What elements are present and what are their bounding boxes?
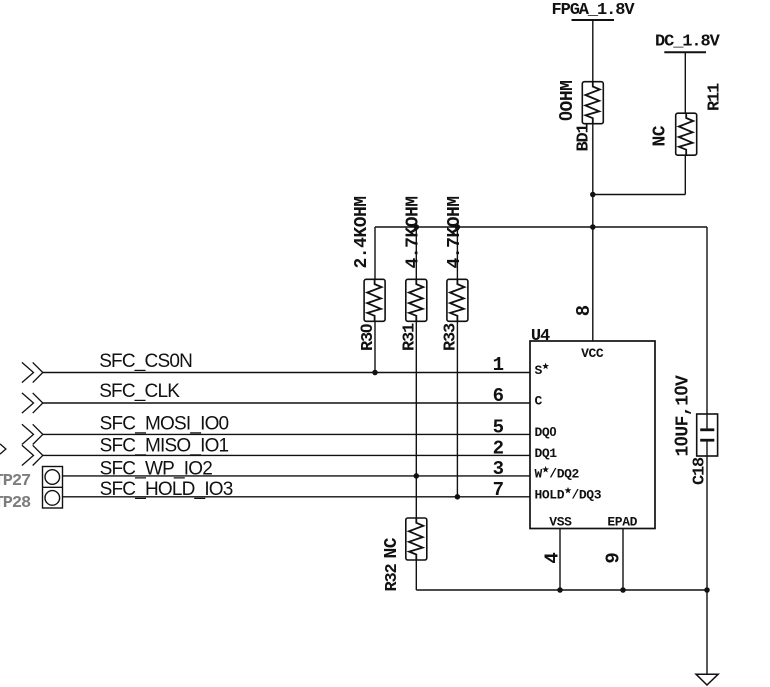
svg-text:R33: R33 [442,323,461,351]
svg-text:R11: R11 [706,83,725,111]
svg-text:7: 7 [493,479,504,501]
svg-text:0OHM: 0OHM [556,81,578,121]
svg-text:NC: NC [651,125,671,146]
svg-text:W: W [535,466,543,481]
svg-text:VSS: VSS [549,515,572,530]
svg-text:SFC_WP_IO2: SFC_WP_IO2 [100,458,213,479]
svg-text:/DQ2: /DQ2 [549,466,579,481]
svg-text:SFC_MOSI_IO0: SFC_MOSI_IO0 [100,414,229,435]
svg-text:R32: R32 [383,563,402,591]
svg-text:8: 8 [573,305,595,316]
svg-text:C18: C18 [691,457,710,485]
svg-text:9: 9 [603,552,625,563]
svg-text:2.4KOHM: 2.4KOHM [352,196,372,268]
svg-text:DQ0: DQ0 [535,424,557,440]
svg-text:U4: U4 [531,327,550,346]
svg-text:R31: R31 [401,323,420,351]
svg-text:NC: NC [382,537,402,558]
svg-text:3: 3 [493,458,504,480]
svg-text:6: 6 [493,385,504,407]
svg-text:5: 5 [493,417,504,439]
svg-text:EPAD: EPAD [607,515,637,530]
svg-text:/DQ3: /DQ3 [572,487,602,502]
svg-text:DC_1.8V: DC_1.8V [655,33,721,52]
svg-text:SFC_HOLD_IO3: SFC_HOLD_IO3 [100,479,233,500]
svg-text:4.7KOHM: 4.7KOHM [445,196,465,268]
svg-text:4.7KOHM: 4.7KOHM [403,196,423,268]
svg-text:FPGA_1.8V: FPGA_1.8V [552,1,636,20]
svg-text:C: C [535,394,543,409]
svg-text:SFC_MISO_IO1: SFC_MISO_IO1 [100,436,229,457]
svg-text:10UF,10V: 10UF,10V [672,375,694,457]
svg-text:R30: R30 [357,324,378,351]
svg-text:TP28: TP28 [0,494,31,513]
svg-text:S: S [535,363,543,378]
svg-text:TP27: TP27 [0,472,31,491]
svg-text:SFC_CS0N: SFC_CS0N [99,351,192,372]
svg-text:4: 4 [542,552,564,563]
svg-text:1: 1 [493,354,504,376]
svg-text:BD1: BD1 [575,123,594,151]
svg-text:HOLD: HOLD [535,487,565,502]
svg-text:DQ1: DQ1 [535,446,558,461]
svg-text:SFC_CLK: SFC_CLK [99,381,180,402]
svg-text:VCC: VCC [581,346,604,361]
svg-text:2: 2 [493,438,504,460]
